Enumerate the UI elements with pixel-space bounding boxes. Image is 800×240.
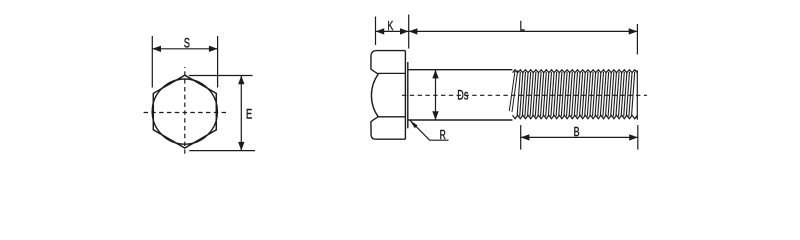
svg-text:B: B bbox=[574, 126, 580, 140]
bolt head side view outline bbox=[376, 51, 406, 140]
head facet line upper bbox=[379, 72, 406, 74]
svg-text:E: E bbox=[246, 106, 252, 122]
dimension S line bbox=[152, 48, 217, 50]
leader R arrowhead bbox=[410, 120, 418, 128]
bolt end face bbox=[636, 70, 638, 119]
horizontal centerline of hexagon bbox=[141, 112, 229, 114]
dimension E bottom extension line bbox=[189, 150, 255, 152]
dimension K/L shared extension line bbox=[408, 15, 410, 49]
svg-text:K: K bbox=[387, 20, 393, 34]
dimension L line bbox=[409, 30, 638, 32]
bolt end chamfer bbox=[635, 70, 638, 119]
svg-text:R: R bbox=[440, 129, 446, 143]
chamfer circle bbox=[152, 79, 217, 144]
thread crest zigzag top bbox=[513, 70, 638, 73]
dimension S arrowheads bbox=[152, 46, 217, 52]
dimension B arrowheads bbox=[521, 134, 638, 140]
dimension S extension lines bbox=[152, 36, 217, 88]
thread runout lines bbox=[509, 70, 517, 112]
svg-text:L: L bbox=[520, 18, 526, 34]
dimension L right extension line bbox=[636, 24, 638, 55]
dimension B right extension line bbox=[637, 125, 639, 150]
shank top edge bbox=[408, 69, 513, 71]
hexagon head front view bbox=[153, 75, 216, 148]
dimension K left extension line bbox=[375, 17, 377, 46]
svg-text:S: S bbox=[184, 36, 190, 51]
svg-text:Ds: Ds bbox=[457, 86, 468, 103]
dimension L arrowheads bbox=[409, 28, 638, 34]
dimension E top extension line bbox=[189, 75, 253, 77]
shank bottom edge bbox=[408, 119, 513, 121]
dimension Ds line bbox=[435, 70, 437, 120]
dimension E line bbox=[240, 76, 242, 151]
head facet line lower bbox=[378, 116, 405, 118]
dimension B line bbox=[521, 136, 638, 138]
dimension E arrowheads bbox=[238, 76, 244, 151]
dimension Ds arrowheads bbox=[432, 70, 438, 120]
dimension K arrowheads bbox=[376, 28, 409, 34]
leader R line bbox=[410, 121, 448, 141]
head left profile chamfer arcs bbox=[371, 51, 378, 140]
vertical centerline of hexagon bbox=[184, 67, 186, 157]
thread hatch lines bbox=[517, 72, 635, 117]
bolt centerline bbox=[402, 94, 647, 96]
dimension B left extension line bbox=[520, 125, 522, 150]
thread crest zigzag bottom bbox=[513, 115, 638, 118]
washer face line bbox=[407, 62, 409, 128]
dimension K line bbox=[376, 30, 409, 32]
